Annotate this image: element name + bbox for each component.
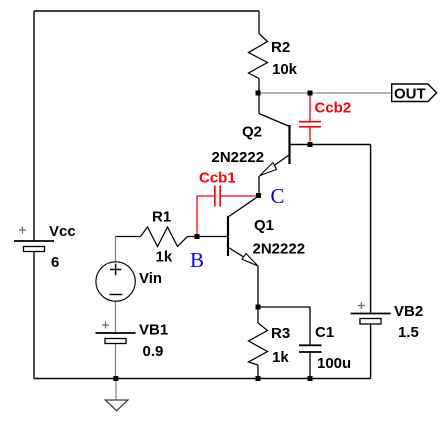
wire OUT net (gray): [258, 92, 392, 94]
svg-text:R1: R1: [152, 209, 171, 226]
battery VB2: [351, 313, 391, 315]
svg-text:1k: 1k: [156, 249, 173, 266]
svg-text:1k: 1k: [272, 349, 289, 366]
svg-text:6: 6: [51, 254, 59, 271]
junction node B: [195, 234, 200, 239]
wire R3 bottom lead: [257, 365, 259, 379]
battery VB1: [96, 332, 136, 334]
wire R1 right lead: [188, 236, 198, 238]
wire left rail upper (Vcc top): [33, 11, 35, 241]
capacitor C1: [299, 344, 322, 346]
wire VB2 top lead: [370, 145, 372, 314]
wire Q1 emitter vertical: [257, 266, 259, 307]
junction VB1 / bottom rail: [113, 376, 118, 381]
svg-text:Ccb2: Ccb2: [315, 100, 352, 117]
wire left rail lower (Vcc bottom): [33, 252, 35, 379]
OUT flag: [392, 84, 437, 102]
capacitor Ccb1: [197, 196, 214, 234]
svg-text:OUT: OUT: [394, 86, 426, 103]
junction Q1 emitter / R3 / C1: [256, 305, 261, 310]
wire C1 top: [258, 307, 310, 345]
capacitor Ccb2: [309, 96, 311, 122]
wire Q2 emitter vertical: [258, 176, 260, 194]
svg-text:Ccb1: Ccb1: [199, 170, 236, 187]
resistor R2: [249, 34, 268, 79]
svg-text:1.5: 1.5: [398, 324, 419, 341]
svg-text:Vin: Vin: [139, 270, 162, 287]
resistor R1: [141, 227, 188, 247]
wire VB2 bottom lead: [370, 324, 372, 379]
svg-text:Q1: Q1: [254, 217, 274, 234]
wire R1 left lead: [116, 236, 141, 238]
wire VB1 bottom (gray): [115, 344, 117, 379]
junction R3 bottom: [256, 376, 261, 381]
svg-text:2N2222: 2N2222: [253, 241, 306, 258]
transistor Q2 (2N2222, mirrored): [288, 125, 290, 164]
wire R2 top lead: [258, 11, 260, 34]
svg-text:Q2: Q2: [242, 124, 262, 141]
svg-text:2N2222: 2N2222: [212, 149, 265, 166]
wire Q2 base to VB2: [290, 144, 371, 146]
wire top rail: [34, 10, 259, 12]
svg-text:10k: 10k: [272, 61, 298, 78]
wire R3 top lead: [257, 307, 259, 323]
svg-text:C: C: [271, 184, 285, 208]
junction Ccb2 top: [308, 91, 313, 96]
wire R2 bottom lead to Q2 collector: [258, 79, 260, 114]
wire C1 bottom lead: [309, 353, 311, 379]
wire Q1 base lead: [197, 236, 227, 238]
svg-text:R3: R3: [271, 325, 290, 342]
svg-text:VB1: VB1: [139, 322, 168, 339]
resistor R3: [249, 323, 268, 365]
junction C1 bottom: [308, 376, 313, 381]
transistor Q1 (2N2222): [227, 216, 229, 256]
wire Vin top (gray): [115, 237, 117, 263]
junction node C: [256, 193, 261, 198]
voltage source Vin: [96, 262, 135, 301]
svg-text:R2: R2: [271, 39, 290, 56]
svg-text:Vcc: Vcc: [49, 223, 76, 240]
svg-text:0.9: 0.9: [143, 343, 164, 360]
wire ground lead (gray): [115, 379, 117, 401]
svg-text:100u: 100u: [317, 355, 351, 372]
svg-text:C1: C1: [315, 324, 334, 341]
battery Vcc: [14, 240, 54, 242]
wire Vin bottom to VB1 (gray): [115, 301, 117, 333]
junction Ccb2 bottom: [308, 142, 313, 147]
wire bottom rail: [34, 378, 371, 380]
ground: [105, 400, 128, 411]
junction R2/OUT: [256, 91, 261, 96]
svg-text:B: B: [190, 248, 204, 272]
svg-text:VB2: VB2: [394, 303, 423, 320]
